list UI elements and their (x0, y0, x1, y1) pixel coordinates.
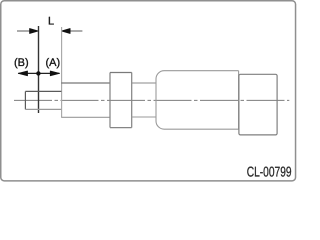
rounded body right edge (238, 71, 240, 130)
big end block (239, 74, 277, 135)
dimension line L left segment (17, 30, 38, 32)
B/A arrow line (18, 72, 59, 74)
medium section bottom edge (61, 116, 110, 118)
small shaft bottom edge (25, 108, 61, 110)
flange bottom edge (110, 127, 132, 129)
flange top edge (110, 72, 132, 74)
arrowhead B pointing left (18, 71, 27, 76)
svg-text:CL-00799: CL-00799 (247, 165, 292, 181)
small shaft left edge (24, 91, 26, 109)
neck top line (132, 82, 157, 84)
extension line left (dark) (38, 26, 40, 113)
svg-text:(A): (A) (45, 57, 60, 69)
arrowhead pointing right at left extension (30, 29, 39, 34)
arrowhead A pointing right (50, 71, 59, 76)
dimension line L right segment (62, 30, 83, 32)
border frame (1, 1, 296, 181)
centerline (14, 99, 289, 101)
flange right edge (131, 73, 133, 128)
svg-text:(B): (B) (14, 57, 29, 69)
arrowhead pointing left at right extension (62, 29, 71, 34)
svg-text:L: L (48, 16, 54, 28)
flange left edge (109, 73, 111, 128)
junction dot (36, 71, 40, 75)
small shaft top edge (25, 90, 61, 92)
medium section top edge (61, 82, 110, 84)
neck bottom line (132, 116, 157, 118)
rounded body outline (156, 71, 239, 130)
extension line right merged with step face (light) (61, 27, 63, 117)
